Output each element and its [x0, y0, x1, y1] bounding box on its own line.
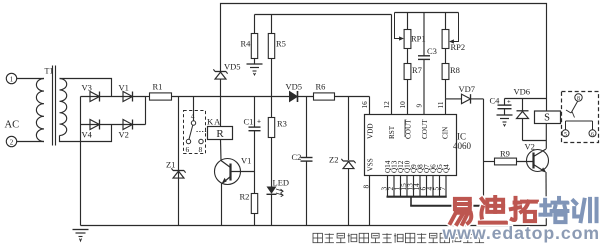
svg-text:C1: C1 [244, 117, 254, 127]
wire S coil top to supply [546, 99, 548, 112]
wire bus step down [410, 197, 412, 206]
wire VD6 bottom to S coil bottom [523, 140, 547, 142]
svg-text:R6: R6 [316, 82, 326, 92]
svg-text:11: 11 [437, 101, 445, 108]
wire main +rail y=96 [146, 96, 150, 98]
potentiometer RP2 [445, 13, 447, 30]
wire feed line1 y=14 (R4/R5 to IC RST) [255, 14, 392, 16]
svg-text:VDD: VDD [367, 123, 375, 139]
ground (below C4) [504, 109, 506, 115]
resistor R6 [314, 93, 335, 100]
capacitor C3 [423, 13, 425, 56]
svg-text:R5: R5 [276, 39, 286, 49]
wire bottom ground rail [81, 225, 547, 227]
zener Z1 [173, 170, 184, 172]
diode VD5 (series, on rail) [290, 92, 298, 102]
terminal 2 (AC input) [6, 136, 16, 146]
wire C4/VD6 supply line [505, 98, 547, 100]
svg-text:R2: R2 [240, 192, 250, 202]
op-amp U1 IC 4060 body [365, 115, 457, 176]
relay coil R (KA coil) [208, 127, 233, 140]
svg-text:1: 1 [10, 76, 14, 84]
transistor V1 [215, 159, 241, 185]
svg-text:AC: AC [5, 120, 20, 131]
diode VD6 (flyback) [522, 99, 524, 111]
zener Z2 [348, 97, 350, 161]
svg-text:C2: C2 [292, 152, 302, 162]
svg-text:VD6: VD6 [514, 87, 531, 97]
svg-text:V3: V3 [82, 83, 92, 93]
wire bridge top branch [81, 96, 146, 98]
watermark 易迪拓培训 (drawn strokes) [455, 199, 470, 209]
svg-text:S: S [544, 113, 550, 124]
resistor R2 [251, 194, 257, 214]
relay contact KA (dashed box with pins 4,6,8) [184, 111, 206, 154]
potentiometer RP1 [407, 13, 409, 30]
resistor R8 [445, 49, 447, 64]
svg-text:4060: 4060 [453, 141, 472, 151]
resistor R9 [495, 158, 517, 165]
svg-text:CIN: CIN [442, 126, 450, 139]
wire bridge left vertical to ground rail [80, 97, 82, 226]
wire V2 emitter to ground rail [545, 172, 547, 226]
svg-text:R: R [216, 128, 224, 140]
svg-text:7: 7 [438, 187, 447, 191]
svg-text:5: 5 [564, 132, 567, 138]
svg-text:VSS: VSS [367, 158, 375, 171]
IC pin 8 VSS wire to ground rail [369, 176, 371, 226]
LED [267, 187, 277, 194]
svg-text:COUT: COUT [405, 119, 413, 139]
svg-text:Z1: Z1 [166, 160, 175, 170]
capacitor C1 [254, 97, 256, 127]
svg-text:+: + [507, 99, 511, 106]
IC pin 11 wire [445, 99, 447, 115]
wire coil R to V1 collector [220, 140, 223, 161]
svg-text:V2: V2 [119, 130, 129, 140]
transformer T1 core [52, 66, 54, 146]
IC pin 9 wire [423, 60, 425, 115]
IC output pin wires Q14..Q4 to bus [387, 176, 389, 198]
svg-text:R3: R3 [277, 119, 287, 129]
ground (main, bottom-left) [73, 229, 89, 231]
svg-text:C4: C4 [490, 96, 501, 106]
svg-text:IC: IC [457, 132, 466, 142]
svg-text:V2: V2 [525, 142, 535, 152]
wire Z1 column [178, 97, 180, 226]
svg-text:R9: R9 [500, 149, 510, 159]
capacitor C2 [306, 97, 308, 158]
ground (below R4) [247, 63, 263, 65]
svg-text:VD5: VD5 [224, 62, 241, 72]
resistor R3 [271, 97, 273, 118]
relay contact S (dashed box, pins 8,5,6) [562, 92, 599, 143]
capacitor C4 [504, 99, 506, 106]
wire top supply loop (y=3, x220..546 with verticals) [221, 4, 547, 99]
wire V2 collector up [545, 124, 547, 149]
svg-text:RP2: RP2 [451, 42, 466, 52]
svg-text:10: 10 [399, 101, 407, 109]
svg-text:8: 8 [363, 185, 371, 189]
wire VD7/R9/bus vertical x=483 [483, 99, 485, 206]
wire zener VD5 to rail [220, 80, 222, 97]
svg-text:RST: RST [388, 125, 396, 139]
resistor R1 [150, 93, 172, 100]
svg-text:C3: C3 [427, 46, 437, 56]
svg-text:VD5: VD5 [286, 82, 303, 92]
wire rail to relay coil R [220, 97, 222, 127]
wire bridge right vertical [145, 97, 147, 125]
wire lower bus to x=483 (thick) [410, 205, 483, 207]
svg-text:9: 9 [416, 104, 424, 108]
wire V1 base to C1/R2 node [231, 171, 255, 173]
wire V1 emitter to ground rail [221, 184, 223, 226]
svg-text:+: + [257, 118, 261, 126]
svg-text:16: 16 [361, 101, 369, 109]
wire secondary bottom to bridge mid-bottom node [60, 125, 112, 142]
svg-text:KA: KA [207, 117, 221, 127]
svg-text:R1: R1 [153, 82, 163, 92]
transformer T1 secondary winding [60, 79, 67, 136]
wire R5 bottom to rail [271, 59, 273, 97]
diode VD7 [446, 98, 462, 100]
svg-text:R8: R8 [450, 65, 460, 75]
IC pin 16 VDD wire [369, 97, 371, 115]
diode V4 [90, 120, 100, 130]
zener VD5 (shunt, above rail) [215, 71, 226, 73]
svg-text:LED: LED [273, 178, 290, 188]
svg-text:V1: V1 [119, 83, 129, 93]
svg-text:Q4: Q4 [443, 164, 451, 173]
svg-text:2: 2 [10, 139, 14, 147]
wire secondary top to bridge mid-top node [60, 79, 112, 97]
relay coil S [535, 111, 561, 124]
wire feed line2 y=12 (RP1/C3/RP2 top) [395, 12, 459, 14]
transistor V2 [527, 150, 549, 172]
wire output bus (thick) [387, 196, 447, 198]
IC pin 10 wire [407, 80, 409, 115]
svg-text:Z2: Z2 [329, 155, 338, 165]
diode V3 [90, 92, 100, 102]
svg-text:6: 6 [591, 132, 594, 138]
svg-text:6: 6 [186, 145, 190, 154]
svg-text:4: 4 [191, 112, 195, 121]
svg-text:COUT: COUT [421, 119, 429, 139]
resistor R4 [254, 15, 256, 34]
diode V2 [123, 120, 133, 130]
wire terminal2 to primary [17, 141, 44, 143]
terminal 1 (AC input) [6, 73, 16, 83]
svg-text:8: 8 [199, 145, 203, 154]
svg-text:VD7: VD7 [459, 84, 476, 94]
resistor R5 [271, 15, 273, 34]
svg-text:12: 12 [383, 101, 391, 109]
wire terminal1 to primary [17, 78, 44, 80]
caption text 原理图中虚线框部分为继电器内部结构图 (approximated glyphs) [313, 233, 484, 242]
svg-text:R4: R4 [241, 39, 252, 49]
svg-text:R7: R7 [412, 65, 422, 75]
IC COUT overline [404, 120, 406, 138]
IC pin 12 RST wire [391, 15, 393, 115]
diode V1 [123, 92, 133, 102]
wire bridge bottom branch [81, 124, 146, 126]
svg-text:www.edatop.com: www.edatop.com [442, 223, 600, 243]
svg-text:V1: V1 [241, 156, 251, 166]
svg-text:V4: V4 [82, 130, 93, 140]
transformer T1 primary winding [36, 79, 44, 142]
resistor R7 [407, 49, 409, 64]
svg-text:T1: T1 [45, 67, 54, 76]
